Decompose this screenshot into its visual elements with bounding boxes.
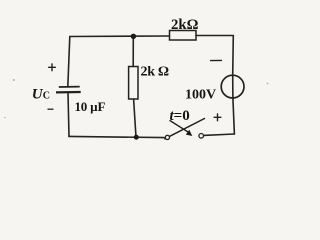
wire left vertical lower	[68, 92, 69, 136]
polarity plus capacitor	[49, 64, 56, 71]
wire top left segment	[70, 35, 170, 38]
svg-text:t=0: t=0	[170, 108, 190, 124]
junction node top	[131, 34, 136, 39]
switch arrowhead	[186, 130, 193, 136]
switch right contact	[199, 134, 204, 139]
capacitor C 10uF bottom plate	[56, 91, 81, 94]
wire middle branch upper	[132, 36, 134, 66]
voltage source circle 100V	[221, 75, 244, 98]
wire top right segment	[196, 35, 233, 37]
svg-text:2k Ω: 2k Ω	[141, 64, 169, 79]
polarity minus source	[210, 59, 222, 61]
resistor R1 2k ohm middle vertical	[129, 67, 138, 100]
capacitor C 10uF top plate	[59, 86, 80, 88]
switch left contact	[165, 135, 169, 139]
switch closing arrow	[170, 121, 189, 133]
speck left lower	[4, 117, 6, 119]
wire right vertical lower	[233, 98, 235, 134]
speck left edge	[13, 79, 15, 81]
switch blade	[165, 119, 205, 139]
wire bottom right segment	[203, 134, 234, 135]
wire through source	[232, 75, 234, 98]
wire left vertical upper	[68, 37, 70, 87]
svg-text:2kΩ: 2kΩ	[171, 17, 199, 33]
polarity plus source	[214, 114, 221, 121]
wire right vertical upper	[232, 36, 235, 76]
polarity minus capacitor	[48, 108, 54, 110]
wire middle branch lower	[134, 99, 136, 137]
svg-text:C: C	[43, 90, 50, 101]
resistor R2 2k ohm top horizontal	[170, 31, 197, 41]
svg-text:10 µF: 10 µF	[75, 99, 106, 114]
svg-text:100V: 100V	[185, 87, 216, 102]
wire bottom left segment	[69, 136, 164, 137]
junction node bottom	[134, 135, 139, 140]
speck right edge	[267, 83, 269, 85]
